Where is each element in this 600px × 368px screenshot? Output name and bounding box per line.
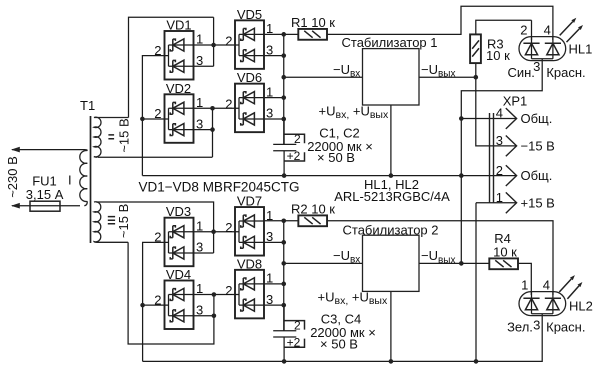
svg-text:−Uвых: −Uвых	[421, 62, 455, 80]
svg-text:VD2: VD2	[166, 81, 191, 96]
svg-text:1: 1	[266, 21, 273, 36]
svg-text:Стабилизатор 1: Стабилизатор 1	[342, 35, 438, 50]
svg-text:~15 В: ~15 В	[117, 118, 132, 152]
svg-text:× 50 В: × 50 В	[317, 150, 355, 165]
svg-text:VD1−VD8 MBRF2045CTG: VD1−VD8 MBRF2045CTG	[139, 180, 300, 195]
svg-text:3: 3	[533, 318, 540, 333]
svg-text:VD6: VD6	[237, 70, 262, 85]
svg-text:3: 3	[196, 240, 203, 255]
svg-text:× 50 В: × 50 В	[320, 336, 358, 351]
svg-text:−Uвх: −Uвх	[333, 62, 360, 80]
svg-text:1: 1	[196, 32, 203, 47]
svg-text:2: 2	[225, 33, 232, 48]
svg-text:1: 1	[496, 190, 503, 205]
svg-text:VD4: VD4	[166, 267, 191, 282]
svg-text:4: 4	[544, 23, 551, 38]
svg-text:~15 В: ~15 В	[116, 204, 131, 238]
svg-text:1: 1	[196, 281, 203, 296]
svg-text:Общ.: Общ.	[521, 111, 553, 126]
svg-text:3: 3	[266, 229, 273, 244]
svg-text:1: 1	[266, 84, 273, 99]
svg-text:3,15 А: 3,15 А	[26, 187, 64, 202]
svg-text:−Uвых: −Uвых	[421, 248, 455, 266]
svg-text:R1 10 к: R1 10 к	[291, 15, 335, 30]
svg-text:3: 3	[196, 303, 203, 318]
svg-text:HL1: HL1	[569, 42, 593, 57]
svg-text:3: 3	[266, 106, 273, 121]
svg-text:2: 2	[154, 106, 161, 121]
svg-text:Стабилизатор 2: Стабилизатор 2	[343, 223, 439, 238]
svg-text:−Uвх: −Uвх	[333, 248, 360, 266]
svg-text:10 к: 10 к	[493, 244, 517, 259]
svg-text:2: 2	[154, 292, 161, 307]
svg-text:Общ.: Общ.	[521, 168, 553, 183]
svg-text:~230 В: ~230 В	[5, 156, 20, 198]
svg-text:1: 1	[266, 208, 273, 223]
svg-text:VD5: VD5	[237, 7, 262, 22]
svg-text:Зел.: Зел.	[507, 320, 533, 335]
svg-text:R2 10 к: R2 10 к	[291, 201, 335, 216]
svg-text:3: 3	[496, 133, 503, 148]
svg-text:VD3: VD3	[166, 204, 191, 219]
svg-text:VD8: VD8	[237, 256, 262, 271]
svg-text:+15 В: +15 В	[521, 195, 555, 210]
svg-text:Красн.: Красн.	[546, 320, 585, 335]
svg-text:I: I	[68, 173, 72, 188]
svg-text:+Uвх, +Uвых: +Uвх, +Uвых	[319, 103, 389, 121]
svg-text:2: 2	[225, 283, 232, 298]
svg-text:4: 4	[496, 106, 503, 121]
svg-text:3: 3	[533, 59, 540, 74]
svg-text:−15 В: −15 В	[521, 139, 555, 154]
svg-text:3: 3	[196, 116, 203, 131]
svg-text:HL2: HL2	[569, 299, 593, 314]
svg-text:1: 1	[521, 278, 528, 293]
svg-text:2: 2	[154, 230, 161, 245]
svg-text:10 к: 10 к	[486, 48, 510, 63]
svg-text:+Uвх, +Uвых: +Uвх, +Uвых	[318, 290, 388, 308]
svg-text:1: 1	[196, 95, 203, 110]
svg-text:4: 4	[543, 278, 550, 293]
svg-text:Син.: Син.	[507, 65, 534, 80]
svg-text:Красн.: Красн.	[546, 65, 585, 80]
svg-text:2: 2	[520, 23, 527, 38]
svg-text:2: 2	[225, 220, 232, 235]
svg-text:2: 2	[154, 43, 161, 58]
svg-text:3: 3	[266, 292, 273, 307]
svg-text:2: 2	[294, 132, 301, 146]
svg-text:2: 2	[294, 318, 301, 332]
svg-text:2: 2	[225, 97, 232, 112]
svg-text:T1: T1	[80, 98, 95, 113]
svg-text:VD1: VD1	[166, 18, 191, 33]
svg-text:1: 1	[196, 218, 203, 233]
svg-text:2: 2	[496, 163, 503, 178]
svg-text:1: 1	[266, 271, 273, 286]
svg-text:+2: +2	[287, 149, 301, 163]
svg-text:+2: +2	[287, 336, 301, 350]
svg-text:VD7: VD7	[237, 194, 262, 209]
svg-text:3: 3	[196, 53, 203, 68]
svg-text:ARL-5213RGBC/4A: ARL-5213RGBC/4A	[334, 189, 450, 204]
svg-text:XP1: XP1	[503, 93, 528, 108]
svg-text:3: 3	[266, 42, 273, 57]
